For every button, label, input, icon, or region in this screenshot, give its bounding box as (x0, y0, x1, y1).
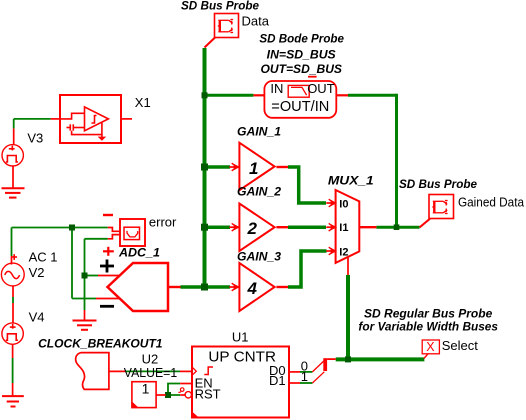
svg-text:IN: IN (270, 81, 283, 96)
svg-text:Gained Data: Gained Data (458, 195, 525, 210)
svg-text:OUT: OUT (307, 81, 335, 96)
svg-text:SD Bus Probe: SD Bus Probe (181, 0, 259, 12)
svg-text:I1: I1 (339, 222, 348, 234)
svg-text:GAIN_3: GAIN_3 (237, 249, 281, 263)
svg-text:SD Regular Bus Probe: SD Regular Bus Probe (364, 307, 493, 321)
svg-text:=OUT/IN: =OUT/IN (271, 98, 329, 115)
svg-text:I0: I0 (339, 199, 348, 211)
svg-text:GAIN_1: GAIN_1 (237, 125, 281, 139)
svg-text:V4: V4 (29, 310, 45, 325)
svg-text:SD Bode Probe: SD Bode Probe (259, 32, 344, 46)
svg-text:I2: I2 (339, 246, 348, 258)
svg-text:X: X (426, 340, 435, 354)
svg-text:Select: Select (442, 338, 479, 353)
svg-text:MUX_1: MUX_1 (328, 173, 374, 187)
svg-text:IN=SD_BUS: IN=SD_BUS (267, 48, 336, 62)
svg-text:X1: X1 (135, 95, 151, 110)
svg-text:UP CNTR: UP CNTR (208, 349, 276, 366)
svg-text:VALUE=1: VALUE=1 (124, 365, 177, 380)
svg-text:2: 2 (247, 219, 258, 238)
svg-text:GAIN_2: GAIN_2 (237, 185, 281, 199)
svg-text:4: 4 (247, 279, 258, 298)
svg-text:error: error (149, 215, 177, 230)
svg-text:SD Bus Probe: SD Bus Probe (399, 177, 477, 191)
svg-text:1: 1 (249, 159, 258, 178)
svg-text:for Variable Width Buses: for Variable Width Buses (358, 320, 498, 334)
svg-text:AC 1: AC 1 (29, 250, 58, 265)
svg-text:OUT=SD_BUS: OUT=SD_BUS (261, 62, 343, 76)
svg-text:V2: V2 (29, 265, 45, 280)
svg-text:D1: D1 (269, 373, 286, 388)
svg-text:1: 1 (142, 381, 150, 397)
svg-text:Data: Data (242, 13, 270, 28)
svg-text:CLOCK_BREAKOUT1: CLOCK_BREAKOUT1 (38, 337, 163, 351)
svg-text:U1: U1 (232, 330, 249, 345)
svg-text:ADC_1: ADC_1 (118, 246, 160, 260)
svg-text:V3: V3 (27, 130, 43, 145)
svg-text:1: 1 (301, 369, 308, 384)
svg-text:RST: RST (195, 387, 221, 402)
